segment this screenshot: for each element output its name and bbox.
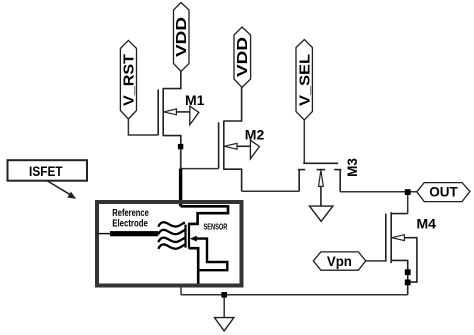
wire box bottom to ground rail	[180, 286, 182, 295]
junction dot node A	[178, 144, 183, 149]
svg-text:V_RST: V_RST	[120, 54, 137, 106]
wire V_RST to M1 gate	[128, 119, 158, 135]
wire node A to M2 gate	[181, 149, 219, 169]
solution wave 2	[158, 230, 185, 234]
svg-text:SENSOR: SENSOR	[204, 221, 228, 231]
svg-text:ISFET: ISFET	[29, 163, 63, 179]
junction dot M4 source 2	[405, 280, 411, 286]
svg-text:M3: M3	[345, 158, 360, 177]
wire OUT to M4 drain	[407, 195, 409, 214]
ISFET package box	[97, 202, 242, 286]
wire M2 source to M3 left terminal	[242, 190, 300, 192]
transistor M1	[158, 72, 190, 169]
svg-text:M1: M1	[185, 92, 205, 108]
transistor M4	[386, 212, 417, 295]
wire V_SEL to M3 gate	[303, 120, 305, 163]
reference electrode bar	[110, 231, 158, 236]
svg-text:Vpn: Vpn	[327, 254, 352, 269]
svg-text:M2: M2	[245, 127, 265, 143]
wire node A to sensor drain (thick)	[179, 169, 182, 207]
svg-text:OUT: OUT	[429, 185, 458, 200]
svg-text:VDD: VDD	[173, 17, 190, 57]
solution wave 4	[158, 244, 185, 248]
solution wave 3	[158, 238, 185, 242]
flag Vpn	[313, 252, 365, 270]
junction dot OUT	[405, 189, 411, 195]
body flag M1	[190, 106, 199, 125]
flag VDD (above M1)	[173, 3, 190, 72]
wire Vpn to M4 gate	[366, 260, 386, 262]
ISFET sensor transistor	[181, 206, 228, 283]
svg-text:VDD: VDD	[234, 37, 251, 77]
svg-text:M4: M4	[417, 216, 437, 232]
junction dot M4 source 1	[405, 269, 411, 275]
svg-text:Electrode: Electrode	[112, 219, 148, 230]
wire M3 right terminal to OUT	[340, 191, 417, 193]
solution wave 1	[158, 222, 185, 226]
ground rail wire	[181, 294, 408, 296]
ground M3 bulk	[310, 206, 333, 221]
junction dot ground rail	[221, 292, 227, 298]
flag OUT	[417, 183, 470, 202]
flag VDD (above M2)	[234, 27, 251, 87]
reference electrode lead	[97, 233, 113, 235]
ground symbol	[215, 297, 234, 331]
flag V_SEL	[296, 40, 313, 121]
body flag M2	[250, 140, 259, 159]
arrow ISFET label to package	[48, 181, 77, 199]
svg-text:Reference: Reference	[112, 208, 149, 219]
svg-text:V_SEL: V_SEL	[296, 54, 313, 106]
transistor M3	[298, 163, 342, 206]
transistor M2	[219, 87, 251, 191]
ISFET label box	[8, 160, 88, 181]
flag V_RST	[120, 40, 137, 119]
